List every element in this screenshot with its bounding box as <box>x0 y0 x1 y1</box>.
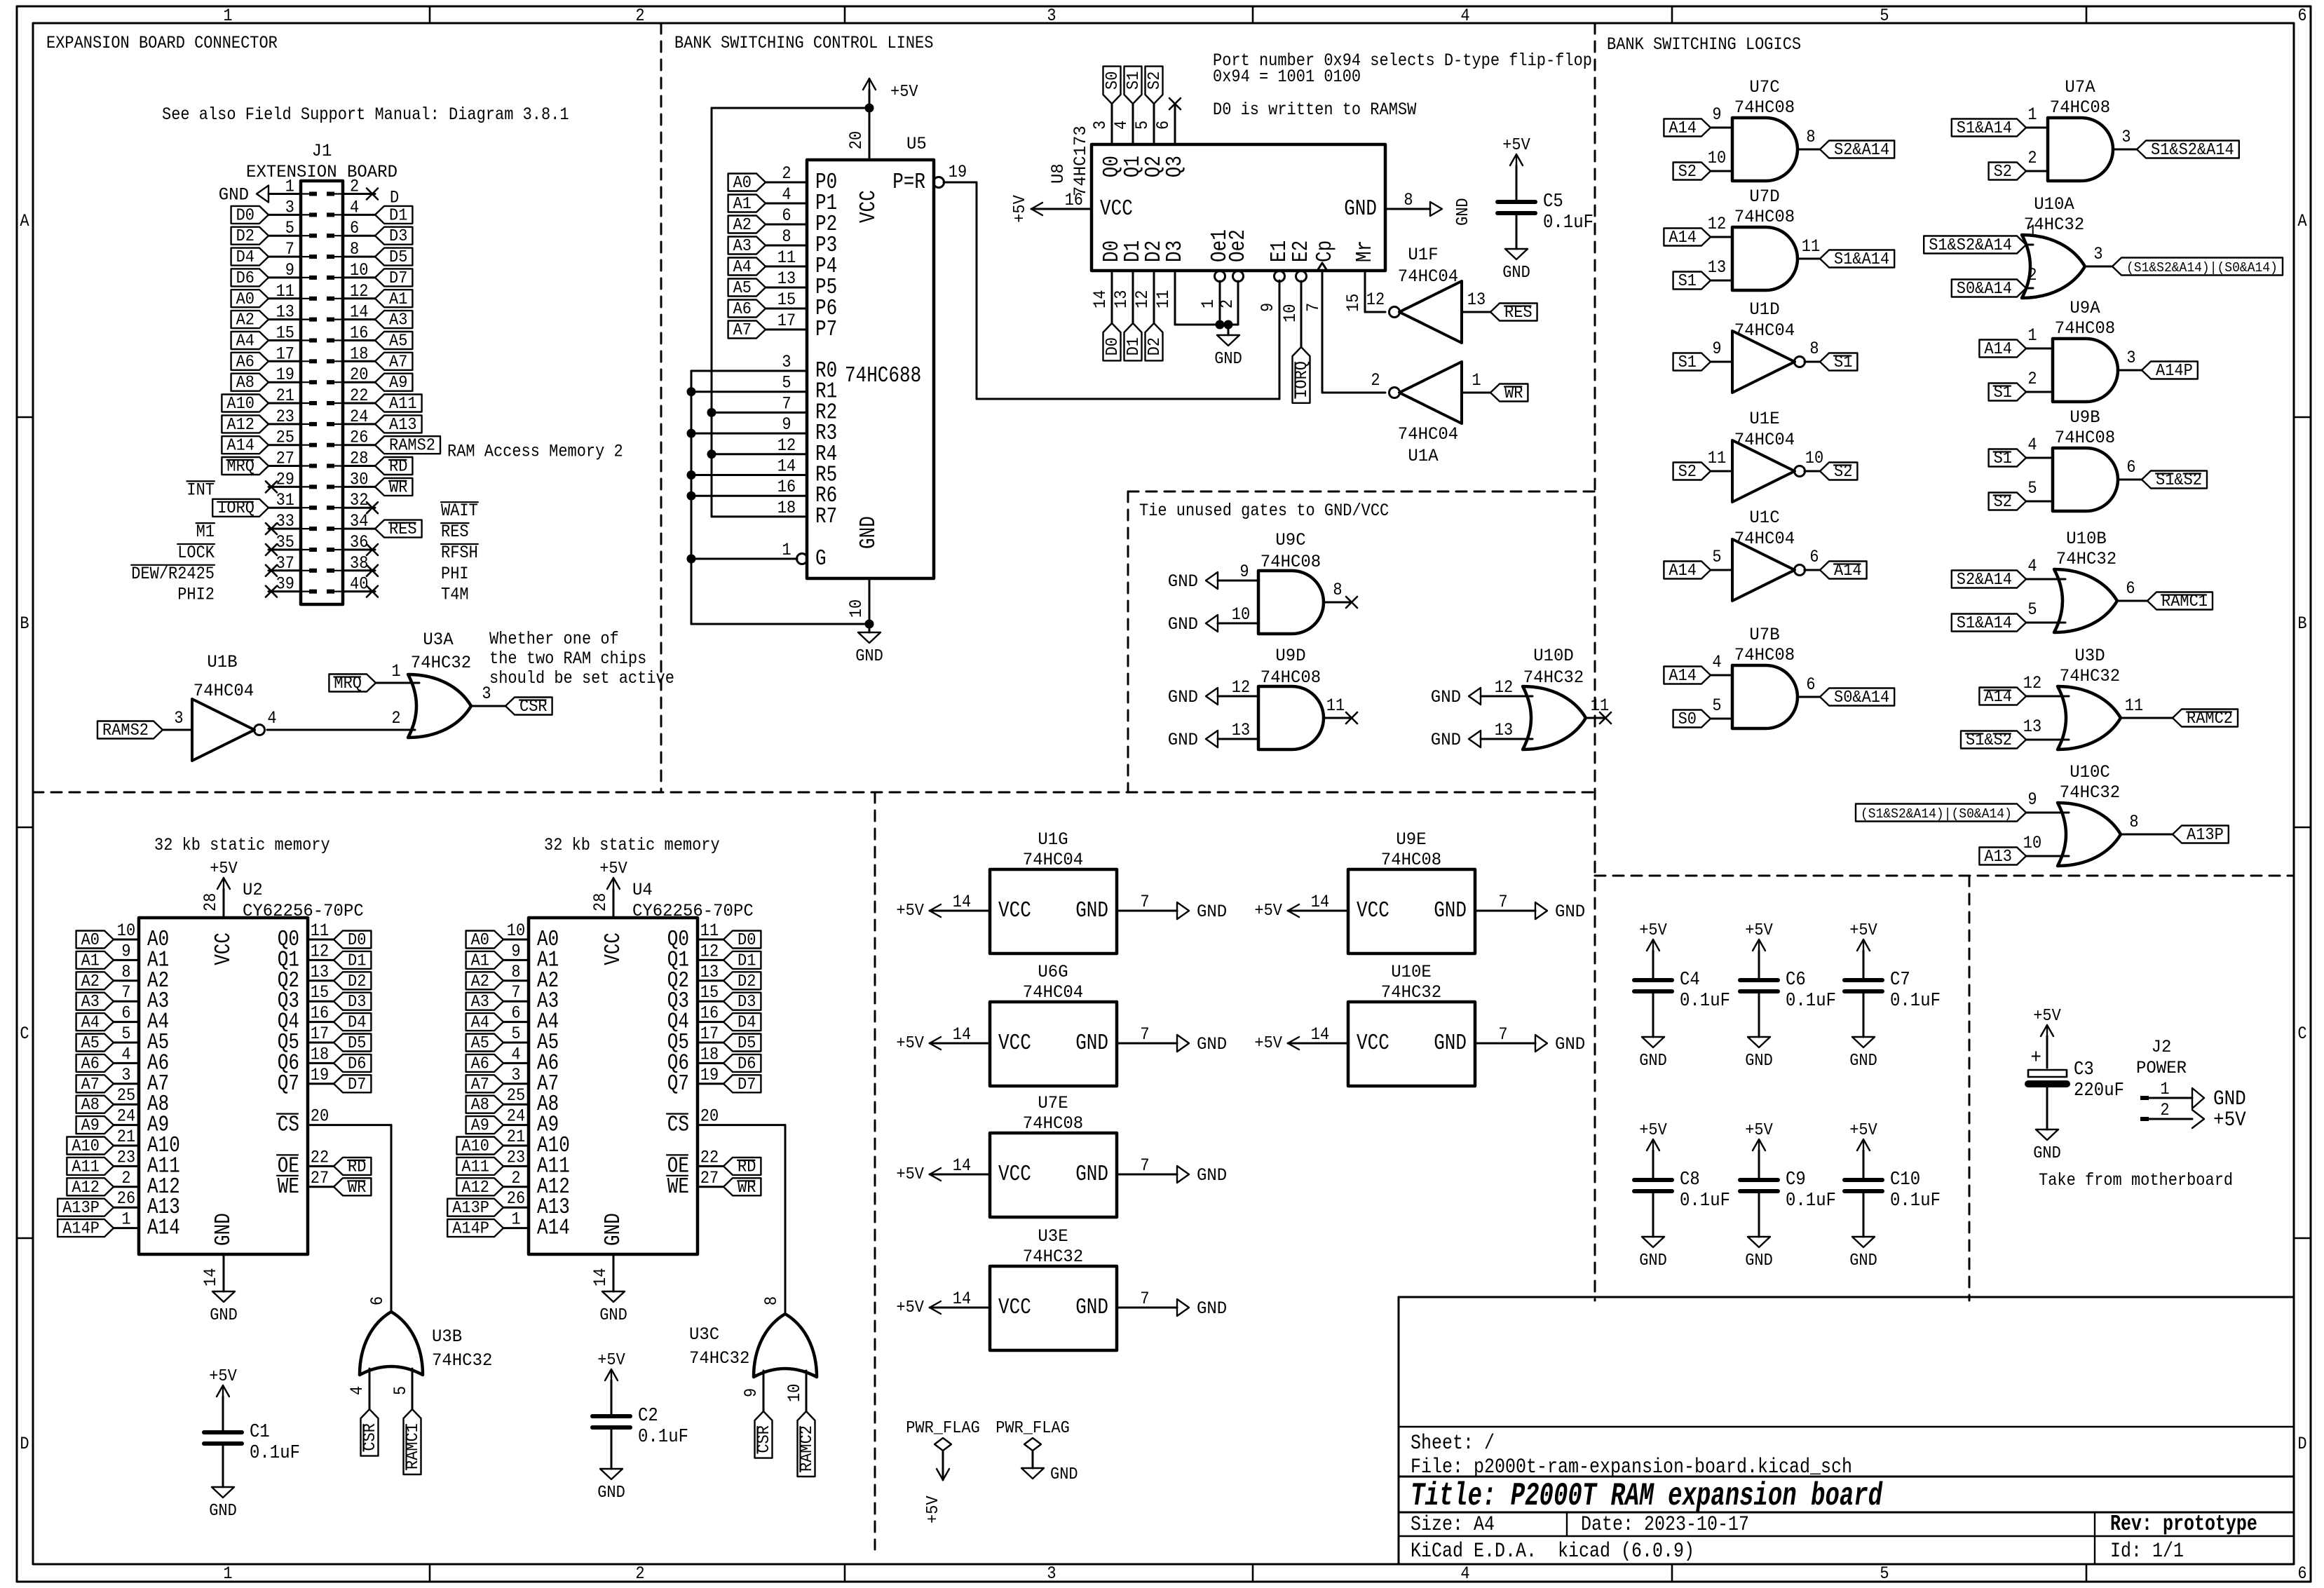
svg-text:B: B <box>2297 615 2306 634</box>
net label RAMC2 (U3D output) <box>2173 709 2238 728</box>
svg-text:GND: GND <box>1849 1251 1877 1270</box>
svg-text:2: 2 <box>391 710 400 728</box>
svg-text:26: 26 <box>117 1190 135 1209</box>
svg-text:7: 7 <box>121 984 130 1003</box>
svg-text:S2&A14: S2&A14 <box>1957 570 2012 589</box>
ground GND (U9D pin 13) <box>1168 731 1258 750</box>
svg-text:D7: D7 <box>348 1075 366 1094</box>
net label A7 (U5 pin 17) <box>728 320 766 339</box>
svg-text:5: 5 <box>2027 480 2037 498</box>
net label A10 (U4 pin 21) <box>456 1136 503 1155</box>
svg-text:VCC: VCC <box>1357 1031 1389 1056</box>
svg-text:20: 20 <box>848 131 867 149</box>
svg-text:U9E: U9E <box>1396 831 1426 850</box>
svg-text:38: 38 <box>350 555 368 574</box>
svg-text:U7C: U7C <box>1749 79 1779 98</box>
title block <box>1399 1297 2294 1564</box>
ground GND (U10E GND pin 7) <box>1475 1026 1585 1054</box>
svg-text:GND: GND <box>1344 196 1377 222</box>
svg-text:D2: D2 <box>738 972 756 991</box>
svg-text:0x94 = 1001 0100: 0x94 = 1001 0100 <box>1213 68 1361 87</box>
no-connect J1 pins 29,33,35,37,39 <box>266 481 277 597</box>
svg-text:S1&S2&A14: S1&S2&A14 <box>1929 236 2012 255</box>
svg-text:10: 10 <box>1708 149 1726 168</box>
svg-text:C: C <box>2297 1025 2306 1044</box>
svg-text:A1: A1 <box>81 951 100 970</box>
svg-text:3: 3 <box>511 1066 520 1085</box>
svg-text:A1: A1 <box>471 951 489 970</box>
svg-text:12: 12 <box>311 942 329 961</box>
svg-text:0.1uF: 0.1uF <box>1680 990 1730 1011</box>
svg-text:6: 6 <box>511 1005 520 1024</box>
svg-text:14: 14 <box>1092 290 1110 308</box>
svg-text:74HC32: 74HC32 <box>2056 550 2116 570</box>
wire U10A input <box>2026 287 2033 290</box>
svg-text:6: 6 <box>2126 580 2135 599</box>
net label A14P (U2 pin 1) <box>57 1219 114 1238</box>
svg-text:GND: GND <box>1197 903 1227 923</box>
ground GND (U9E GND pin 7) <box>1475 893 1585 922</box>
note Tie unused gates to GND/VCC <box>1139 502 1389 521</box>
wire U1A input from WR <box>1462 392 1490 394</box>
wire U5 P7 input <box>766 312 807 331</box>
net label D0 (U2 pin 11) <box>334 930 371 949</box>
net label S1 (U1D output) <box>1820 353 1857 372</box>
svg-text:15: 15 <box>777 291 796 310</box>
svg-text:C5: C5 <box>1543 191 1563 212</box>
net label A5 (U2 pin 5) <box>76 1033 114 1052</box>
net label CSR (U3C pin 9) <box>754 1411 773 1458</box>
svg-text:A6: A6 <box>81 1054 100 1073</box>
svg-text:P7: P7 <box>815 317 837 342</box>
svg-text:GND: GND <box>855 646 883 665</box>
svg-text:5: 5 <box>392 1386 411 1395</box>
svg-text:PHI2: PHI2 <box>177 586 215 605</box>
net label A1 (J1 pin 12) <box>375 290 412 308</box>
net label A14 (U7C input) <box>1664 118 1711 137</box>
svg-text:17: 17 <box>700 1025 719 1044</box>
svg-text:U1E: U1E <box>1749 410 1779 430</box>
svg-text:10: 10 <box>1282 304 1300 323</box>
svg-text:A2: A2 <box>733 215 752 234</box>
svg-text:5: 5 <box>285 219 294 238</box>
svg-text:1: 1 <box>782 541 791 560</box>
svg-text:24: 24 <box>117 1108 135 1127</box>
svg-text:A12: A12 <box>72 1178 100 1197</box>
net label RAMS2 (U1B input) <box>97 721 163 740</box>
net label A5 (J1 pin 16) <box>375 332 412 351</box>
svg-text:GND: GND <box>1197 1300 1227 1319</box>
svg-text:D4: D4 <box>738 1013 756 1032</box>
and-gate U7C 74HC08 <box>1708 79 1816 181</box>
svg-text:9: 9 <box>782 416 791 435</box>
net label D4 (J1 pin 7) <box>231 247 269 266</box>
net label A11 (U4 pin 23) <box>456 1158 503 1176</box>
power unit U10E 74HC32 <box>1348 963 1475 1086</box>
svg-text:3: 3 <box>1047 7 1056 26</box>
capacitor C6 0.1uF <box>1740 921 1836 1070</box>
wire U2 WE input <box>308 1186 334 1188</box>
power unit U9E 74HC08 <box>1348 831 1475 954</box>
svg-text:D7: D7 <box>389 269 407 287</box>
svg-text:2: 2 <box>1218 299 1237 308</box>
svg-text:C9: C9 <box>1786 1169 1806 1190</box>
svg-text:DEW/R2425: DEW/R2425 <box>131 565 215 584</box>
svg-text:2: 2 <box>635 7 644 26</box>
svg-text:U10A: U10A <box>2034 196 2074 215</box>
wire U5 P4 input <box>766 249 807 268</box>
svg-text:12: 12 <box>777 437 796 456</box>
net label (S1&S2&A14)|(S0&A14) (U10C input) <box>1856 804 2026 822</box>
svg-text:+5V: +5V <box>1849 1120 1877 1139</box>
and-gate U7A 74HC08 <box>2027 79 2131 181</box>
svg-text:D6: D6 <box>236 269 254 287</box>
svg-text:21: 21 <box>117 1128 135 1147</box>
svg-text:8: 8 <box>763 1296 782 1305</box>
net label A9 (J1 pin 20) <box>375 373 412 392</box>
net label RD (J1 pin 28) <box>375 457 412 476</box>
svg-text:+5V: +5V <box>1639 1120 1667 1139</box>
net label D0 (J1 pin 3) <box>231 206 269 225</box>
svg-text:12: 12 <box>1232 679 1250 698</box>
U4 data pin names <box>667 927 689 1097</box>
net label S2&A14 (U7C output) <box>1820 140 1894 159</box>
svg-text:U10C: U10C <box>2070 764 2110 783</box>
svg-text:9: 9 <box>742 1388 761 1397</box>
net label RAMS2 (J1 pin 26) <box>375 436 440 455</box>
svg-text:6: 6 <box>2126 459 2135 477</box>
svg-text:7: 7 <box>782 395 791 414</box>
svg-text:U8: U8 <box>1049 163 1069 184</box>
svg-text:9: 9 <box>1712 106 1721 125</box>
svg-text:S2: S2 <box>1678 162 1697 181</box>
svg-text:74HC08: 74HC08 <box>1734 646 1795 666</box>
svg-text:5: 5 <box>1134 121 1153 130</box>
svg-text:24: 24 <box>507 1108 525 1127</box>
svg-text:1: 1 <box>1472 372 1481 391</box>
svg-text:PWR_FLAG: PWR_FLAG <box>906 1418 980 1437</box>
svg-text:16: 16 <box>1065 191 1083 210</box>
wire U1D output <box>1805 361 1820 363</box>
svg-text:14: 14 <box>350 304 368 323</box>
svg-text:0.1uF: 0.1uF <box>1680 1190 1730 1211</box>
svg-text:74HC32: 74HC32 <box>689 1350 749 1369</box>
net label A1 (U5 pin 4) <box>728 194 766 213</box>
svg-text:Tie unused gates to GND/VCC: Tie unused gates to GND/VCC <box>1139 502 1389 521</box>
svg-text:17: 17 <box>311 1025 329 1044</box>
svg-text:A13: A13 <box>389 415 417 434</box>
svg-text:WAIT: WAIT <box>441 502 478 521</box>
svg-text:+5V: +5V <box>1849 921 1877 939</box>
ground GND (U3E GND pin 7) <box>1117 1290 1227 1319</box>
wire U1F input from RES <box>1462 311 1490 313</box>
net label D1 (U8 pin 13) <box>1124 323 1143 360</box>
svg-text:A1: A1 <box>389 290 407 308</box>
svg-text:14: 14 <box>1311 893 1329 912</box>
net label S2 (U8 pin 5) <box>1145 67 1164 104</box>
wire U10C input <box>2026 855 2069 857</box>
svg-text:B: B <box>20 615 29 634</box>
svg-text:27: 27 <box>311 1169 329 1188</box>
net label A13P (U2 pin 26) <box>57 1198 114 1217</box>
svg-text:1: 1 <box>2027 106 2037 125</box>
svg-text:0.1uF: 0.1uF <box>1890 990 1941 1011</box>
U8 Q0-Q2 output wires with S0 S1 S2 labels <box>1092 104 1112 144</box>
svg-text:4: 4 <box>511 1045 520 1064</box>
svg-text:D1: D1 <box>348 951 366 970</box>
svg-text:11: 11 <box>1708 449 1726 468</box>
wire U1C output <box>1805 569 1820 571</box>
svg-text:12: 12 <box>1366 291 1385 310</box>
net label S2 (U7C input) <box>1673 162 1711 181</box>
svg-text:A9: A9 <box>81 1116 100 1135</box>
svg-text:C4: C4 <box>1680 969 1700 990</box>
svg-text:2: 2 <box>511 1169 520 1188</box>
svg-text:2: 2 <box>1371 372 1380 391</box>
net label S2 (U1E input) <box>1673 462 1711 481</box>
power flag PWR_FLAG GND <box>995 1418 1078 1484</box>
svg-text:Take from motherboard: Take from motherboard <box>2039 1172 2233 1190</box>
svg-text:6: 6 <box>2297 7 2306 26</box>
svg-text:16: 16 <box>700 1005 719 1024</box>
or-gate U3D 74HC32 <box>2023 647 2143 749</box>
svg-text:10: 10 <box>117 922 135 941</box>
svg-text:A11: A11 <box>72 1158 100 1176</box>
and-gate U9C 74HC08 <box>1232 531 1343 634</box>
net label A4 (U5 pin 11) <box>728 257 766 276</box>
wire U10C input <box>2026 812 2069 814</box>
svg-text:1: 1 <box>511 1211 520 1230</box>
svg-text:13: 13 <box>777 270 796 289</box>
U8 Oe1 Oe2 bubbles and wires <box>1200 271 1243 325</box>
svg-text:5: 5 <box>1712 697 1721 716</box>
svg-text:A8: A8 <box>236 373 254 392</box>
net label S2 (U1E output) <box>1820 462 1857 481</box>
svg-text:9: 9 <box>511 942 520 961</box>
and-gate U9D 74HC08 <box>1232 647 1345 749</box>
ground GND (U10D pin 13) <box>1431 731 1533 750</box>
svg-text:22: 22 <box>700 1148 719 1167</box>
svg-text:U3D: U3D <box>2074 647 2105 667</box>
svg-text:U7A: U7A <box>2065 79 2095 98</box>
svg-text:4: 4 <box>2027 557 2037 576</box>
svg-text:GND: GND <box>1745 1251 1773 1270</box>
svg-text:+5V: +5V <box>2213 1109 2246 1132</box>
net label D2 (U4 pin 13) <box>723 972 761 991</box>
svg-text:GND: GND <box>597 1483 625 1502</box>
svg-text:8: 8 <box>782 228 791 247</box>
svg-text:27: 27 <box>276 450 294 469</box>
inverter U1D 74HC04 <box>1712 301 1819 393</box>
net label D1 (U2 pin 12) <box>334 951 371 970</box>
svg-text:6: 6 <box>1806 676 1815 695</box>
svg-text:30: 30 <box>350 470 368 489</box>
svg-text:A10: A10 <box>461 1136 489 1155</box>
net label S0&A14 (U7B output) <box>1820 688 1894 707</box>
svg-text:GND: GND <box>1214 349 1242 368</box>
svg-text:T4M: T4M <box>441 586 469 605</box>
svg-text:9: 9 <box>1239 563 1249 582</box>
svg-text:CY62256-70PC: CY62256-70PC <box>243 902 364 922</box>
svg-text:14: 14 <box>202 1268 221 1287</box>
svg-text:15: 15 <box>1345 294 1364 312</box>
svg-text:A5: A5 <box>81 1033 100 1052</box>
svg-text:+5V: +5V <box>209 1366 237 1385</box>
svg-text:9: 9 <box>285 262 294 280</box>
U8 Cp clock pin wedge <box>1305 263 1327 312</box>
svg-text:34: 34 <box>350 513 368 531</box>
ground GND (U9C pin 10) <box>1168 615 1258 634</box>
net label S0 (U8 pin 3) <box>1103 67 1122 104</box>
svg-text:CY62256-70PC: CY62256-70PC <box>632 902 754 922</box>
net label RAMC1 (U10B output) <box>2147 592 2213 611</box>
svg-text:D4: D4 <box>348 1013 366 1032</box>
net label S1&A14 (U10B input) <box>1952 613 2026 632</box>
svg-text:S2: S2 <box>1145 72 1164 90</box>
svg-text:8: 8 <box>1404 191 1413 210</box>
svg-text:A14P: A14P <box>452 1219 489 1238</box>
net label A4 (U2 pin 6) <box>76 1013 114 1032</box>
svg-text:11: 11 <box>777 249 796 268</box>
svg-text:33: 33 <box>276 513 294 531</box>
svg-text:6: 6 <box>121 1005 130 1024</box>
svg-text:12: 12 <box>1495 679 1513 698</box>
net label D3 (U2 pin 15) <box>334 992 371 1011</box>
svg-text:9: 9 <box>121 942 130 961</box>
U2 data pin names <box>278 927 299 1097</box>
svg-text:A0: A0 <box>471 930 489 949</box>
wire U7A input <box>2026 127 2048 129</box>
wire U4 OE input <box>698 1165 723 1167</box>
no-connect U10D output pin 11 <box>1586 712 1611 724</box>
svg-text:GND: GND <box>211 1213 236 1246</box>
net label D2 (J1 pin 5) <box>231 226 269 245</box>
svg-text:D0: D0 <box>1103 337 1122 355</box>
svg-text:the two RAM chips: the two RAM chips <box>489 650 646 669</box>
svg-text:GND: GND <box>1849 1051 1877 1070</box>
wire U3B input 4 <box>369 1369 371 1409</box>
power unit U1G 74HC04 <box>990 831 1117 954</box>
svg-text:Q3: Q3 <box>1162 156 1188 177</box>
net label D0 (U4 pin 11) <box>723 930 761 949</box>
net label A3 (U5 pin 8) <box>728 236 766 255</box>
net label A14P (U9A output) <box>2142 361 2198 380</box>
svg-text:A12: A12 <box>461 1178 489 1197</box>
svg-text:D0: D0 <box>738 930 756 949</box>
net label S0&A14 (U10A input) <box>1952 279 2026 298</box>
svg-text:A: A <box>2297 212 2306 231</box>
net label A1 (U2 pin 9) <box>76 951 114 970</box>
svg-text:GND: GND <box>1050 1465 1078 1484</box>
svg-text:U9A: U9A <box>2070 299 2100 319</box>
svg-text:4: 4 <box>350 198 359 217</box>
wire U10A input <box>2026 244 2033 246</box>
svg-text:19: 19 <box>700 1066 719 1085</box>
svg-text:74HC04: 74HC04 <box>1398 426 1458 445</box>
net label S1&A14 (U7D output) <box>1820 250 1894 269</box>
svg-text:0.1uF: 0.1uF <box>1786 990 1836 1011</box>
U5 R pin numbers <box>777 353 796 518</box>
svg-text:GND: GND <box>1639 1051 1667 1070</box>
net label A4 (U4 pin 6) <box>466 1013 503 1032</box>
svg-text:D5: D5 <box>389 247 407 266</box>
svg-text:+5V: +5V <box>210 859 238 878</box>
svg-text:9: 9 <box>2027 791 2037 810</box>
svg-text:8: 8 <box>1809 340 1819 359</box>
svg-text:+5V: +5V <box>597 1350 625 1369</box>
svg-text:A10: A10 <box>226 394 254 413</box>
net label RD (U4 pin 22) <box>723 1158 761 1176</box>
net label A2 (J1 pin 13) <box>231 311 269 330</box>
svg-text:D6: D6 <box>348 1054 366 1073</box>
no-connect U9D output pin 11 <box>1324 712 1357 724</box>
svg-text:WE: WE <box>278 1174 299 1200</box>
svg-text:S1&A14: S1&A14 <box>1957 613 2012 632</box>
svg-text:A14: A14 <box>147 1216 180 1241</box>
note 32 kb static memory <box>544 836 720 855</box>
svg-text:GND: GND <box>1453 198 1472 226</box>
wire U2 CS to U3B output <box>308 1125 391 1312</box>
net label A13 (J1 pin 24) <box>375 415 422 434</box>
wire U9A output <box>2118 369 2142 372</box>
net label D4 (U2 pin 16) <box>334 1013 371 1032</box>
svg-text:RAM Access Memory 2: RAM Access Memory 2 <box>447 443 623 462</box>
title block sheet and file <box>1411 1432 1852 1479</box>
wire U5 P2 input <box>766 207 807 226</box>
wire GND vertical bus <box>691 371 869 624</box>
svg-text:19: 19 <box>949 163 967 182</box>
svg-text:A6: A6 <box>733 299 752 318</box>
svg-text:13: 13 <box>1232 721 1250 740</box>
svg-text:13: 13 <box>276 304 294 323</box>
comparator U5 74HC688 <box>807 135 934 578</box>
net label A12 (J1 pin 23) <box>222 415 269 434</box>
svg-text:25: 25 <box>117 1087 135 1106</box>
svg-text:6: 6 <box>2297 1565 2306 1584</box>
svg-text:14: 14 <box>953 1290 971 1309</box>
net label A0 (U5 pin 2) <box>728 173 766 192</box>
net label A8 (U2 pin 25) <box>76 1095 114 1114</box>
connector J1 EXTENSION BOARD <box>246 142 397 604</box>
svg-text:G: G <box>815 546 827 571</box>
svg-text:A11: A11 <box>461 1158 489 1176</box>
svg-text:28: 28 <box>592 893 611 911</box>
net label S1 (U1D input) <box>1673 353 1711 372</box>
svg-text:3: 3 <box>285 198 294 217</box>
svg-text:7: 7 <box>1305 303 1324 312</box>
wire U7C output <box>1798 149 1820 151</box>
or-gate U3B 74HC32 <box>348 1312 492 1395</box>
net label S1&A14 (U7A input) <box>1952 118 2026 137</box>
svg-text:74HC04: 74HC04 <box>1023 851 1083 871</box>
net label A14 (J1 pin 25) <box>222 436 269 455</box>
svg-text:10: 10 <box>507 922 525 941</box>
svg-text:3: 3 <box>121 1066 130 1085</box>
net label D0 (U8 pin 14) <box>1103 323 1122 360</box>
wire U1C input <box>1711 569 1732 571</box>
net label D3 (U4 pin 15) <box>723 992 761 1011</box>
svg-text:1: 1 <box>1200 299 1218 308</box>
net label A13 (U10C input) <box>1979 847 2026 866</box>
svg-text:4: 4 <box>1712 653 1721 672</box>
wire U8 D3 to GND net <box>1155 271 1238 325</box>
wire U10B output <box>2117 600 2147 602</box>
svg-text:U1F: U1F <box>1408 246 1438 266</box>
net label A0 (U4 pin 10) <box>466 930 503 949</box>
svg-text:9: 9 <box>1259 303 1278 312</box>
and-gate U9B 74HC08 <box>2027 409 2135 511</box>
net label S0 (U7B input) <box>1673 710 1711 728</box>
